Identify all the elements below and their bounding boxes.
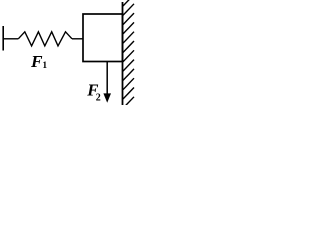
svg-text:1: 1 xyxy=(42,61,47,71)
wire: spring lead-out xyxy=(72,38,83,40)
force arrow F2 (downward from block bottom) xyxy=(106,62,108,98)
anchor post (left fixed support) xyxy=(2,26,4,51)
wall line xyxy=(122,2,124,105)
spring coil xyxy=(18,32,72,46)
svg-text:F: F xyxy=(30,52,43,71)
wall hatching xyxy=(123,0,134,108)
block (mass attached to wall) xyxy=(83,14,123,62)
svg-text:2: 2 xyxy=(96,93,101,104)
wire: spring lead-in xyxy=(3,38,18,40)
